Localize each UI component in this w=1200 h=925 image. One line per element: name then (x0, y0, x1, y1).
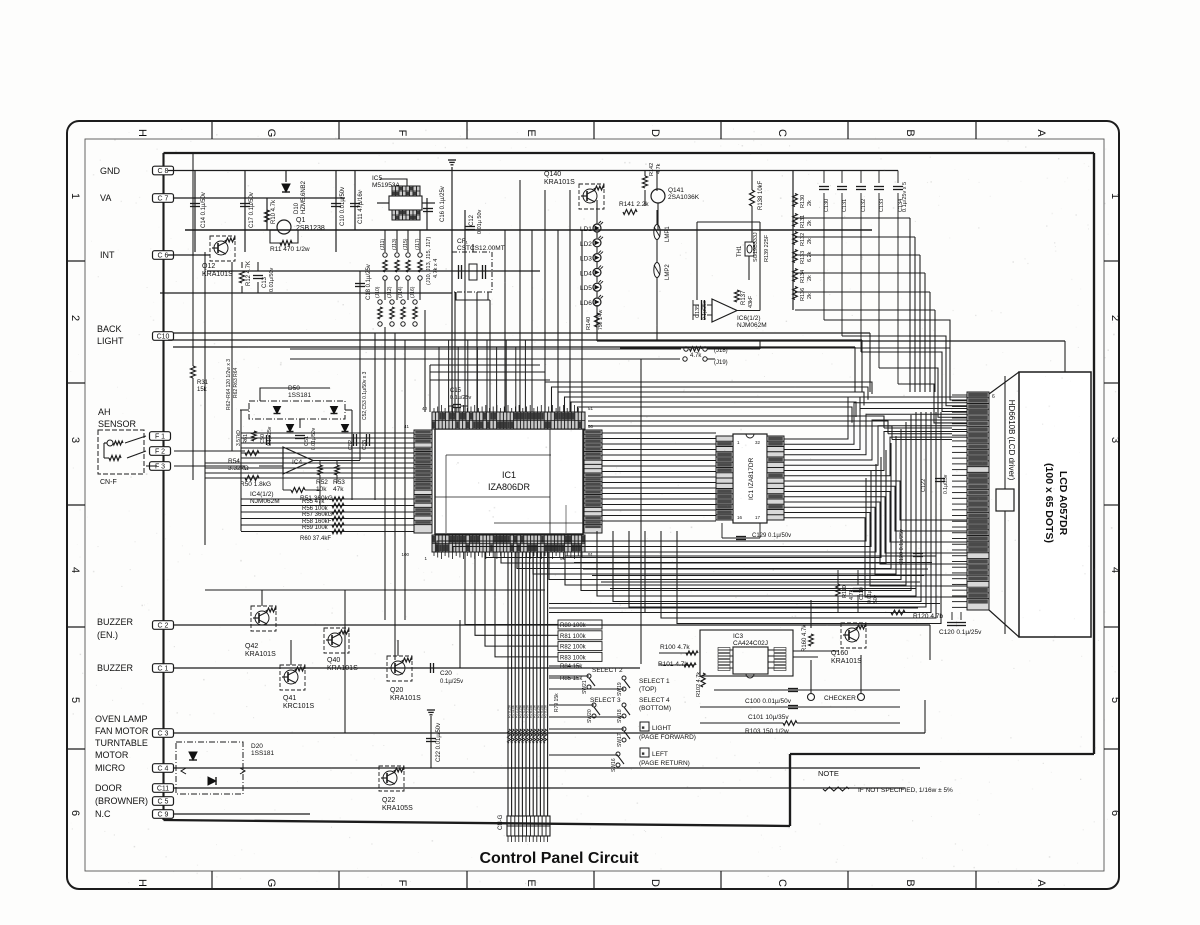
svg-text:(EN.): (EN.) (97, 630, 118, 640)
svg-text:SENSOR: SENSOR (98, 419, 137, 429)
svg-text:SELECT 3: SELECT 3 (590, 697, 621, 704)
svg-text:R136: R136 (800, 288, 806, 301)
svg-text:KRA101S: KRA101S (544, 179, 575, 186)
svg-text:C 1: C 1 (158, 666, 169, 673)
svg-text:INT: INT (100, 250, 115, 260)
svg-text:KRA101S: KRA101S (202, 271, 233, 278)
svg-text:C 8: C 8 (158, 168, 169, 175)
svg-text:15k: 15k (197, 387, 208, 393)
svg-text:OVEN LAMP: OVEN LAMP (95, 714, 148, 724)
svg-text:R60 37.4kF: R60 37.4kF (300, 536, 331, 542)
svg-text:C22 0.01µ/50v: C22 0.01µ/50v (436, 723, 442, 762)
svg-text:SW21: SW21 (582, 680, 588, 694)
svg-text:C 7: C 7 (158, 196, 169, 203)
svg-text:R7015k: R7015k (544, 705, 548, 718)
svg-text:C 6: C 6 (158, 253, 169, 260)
svg-text:CF₁: CF₁ (457, 238, 469, 245)
svg-text:C110: C110 (859, 587, 865, 600)
svg-text:R11 470 1/2w: R11 470 1/2w (270, 246, 310, 253)
svg-text:0.01µ/50v: 0.01µ/50v (269, 267, 275, 292)
svg-text:NOTE: NOTE (818, 769, 839, 778)
svg-text:43kF: 43kF (748, 295, 754, 308)
svg-text:41: 41 (404, 424, 410, 429)
svg-text:R160 4.7k: R160 4.7k (802, 624, 808, 652)
svg-text:H: H (136, 879, 148, 887)
svg-text:D20: D20 (251, 743, 263, 750)
svg-text:C129 0.1µ/50v: C129 0.1µ/50v (752, 533, 791, 539)
svg-text:E: E (525, 879, 537, 886)
svg-text:F 2: F 2 (155, 449, 165, 456)
svg-text:C20: C20 (440, 670, 452, 677)
svg-text:C130: C130 (824, 199, 830, 212)
svg-text:R131: R131 (800, 215, 806, 228)
svg-text:SW17: SW17 (617, 733, 623, 747)
svg-text:R142: R142 (649, 163, 655, 176)
svg-text:6: 6 (1109, 810, 1121, 816)
svg-text:R101 4.7k: R101 4.7k (658, 661, 688, 668)
svg-text:32: 32 (755, 440, 761, 445)
svg-text:F 3: F 3 (155, 464, 165, 471)
svg-text:6: 6 (69, 810, 81, 816)
svg-text:3: 3 (69, 437, 81, 443)
svg-text:1: 1 (69, 193, 81, 199)
svg-text:Q42: Q42 (245, 643, 258, 650)
svg-text:SELECT 1: SELECT 1 (639, 678, 670, 685)
svg-text:(BROWNER): (BROWNER) (95, 796, 148, 806)
svg-text:R102 4.7k: R102 4.7k (696, 672, 702, 697)
svg-text:R139 225F: R139 225F (764, 234, 770, 262)
svg-text:R79 15k: R79 15k (554, 693, 560, 712)
svg-text:2: 2 (69, 315, 81, 321)
svg-text:GND: GND (100, 166, 121, 176)
svg-text:C 5: C 5 (158, 799, 169, 806)
svg-text:Q160: Q160 (831, 650, 848, 657)
svg-text:SW16: SW16 (611, 758, 617, 772)
svg-text:4.7k: 4.7k (656, 163, 662, 174)
svg-text:R130: R130 (800, 195, 806, 208)
svg-text:R61: R61 (243, 434, 249, 444)
svg-text:R138 10kF: R138 10kF (758, 180, 764, 210)
svg-text:C: C (776, 129, 788, 137)
svg-text:■: ■ (642, 751, 645, 757)
svg-text:1SS181: 1SS181 (288, 392, 312, 399)
svg-text:SELECT 4: SELECT 4 (639, 697, 670, 704)
svg-text:R62 R63 R64: R62 R63 R64 (233, 367, 239, 398)
svg-text:IZA806DR: IZA806DR (488, 482, 531, 492)
svg-text:R133: R133 (800, 251, 806, 264)
svg-text:B: B (904, 879, 916, 886)
svg-text:IC1: IC1 (502, 470, 516, 480)
svg-text:CN-F: CN-F (100, 479, 117, 486)
svg-text:10k: 10k (316, 486, 327, 493)
svg-text:F: F (396, 880, 408, 887)
svg-text:MOTOR: MOTOR (95, 750, 129, 760)
svg-text:SG19B333J: SG19B333J (753, 232, 759, 262)
svg-text:A: A (1035, 129, 1047, 137)
svg-text:C 2: C 2 (158, 623, 169, 630)
svg-text:KRA101S: KRA101S (327, 665, 358, 672)
svg-text:C101 10µ/35v: C101 10µ/35v (748, 714, 789, 721)
svg-text:R80 100k: R80 100k (560, 623, 587, 629)
svg-text:2k: 2k (807, 293, 813, 299)
svg-text:100: 100 (401, 552, 409, 557)
svg-text:5: 5 (1109, 697, 1121, 703)
svg-text:C132: C132 (861, 199, 867, 212)
svg-text:C120 0.1µ/25v: C120 0.1µ/25v (939, 629, 982, 636)
svg-text:Q22: Q22 (382, 797, 395, 804)
svg-text:LEFT: LEFT (652, 751, 668, 758)
svg-text:HD6610B (LCD driver): HD6610B (LCD driver) (1007, 400, 1016, 481)
svg-text:CSTCS12.00MT: CSTCS12.00MT (457, 245, 505, 252)
svg-text:4: 4 (1109, 567, 1121, 573)
svg-text:C122: C122 (921, 479, 927, 492)
svg-text:CN-G: CN-G (498, 814, 504, 830)
svg-text:R100 4.7k: R100 4.7k (660, 644, 690, 651)
svg-text:R81 100k: R81 100k (560, 634, 587, 640)
svg-text:C131: C131 (842, 199, 848, 212)
svg-text:(PAGE FORWARD): (PAGE FORWARD) (639, 734, 696, 741)
svg-text:2k: 2k (807, 238, 813, 244)
svg-text:R134: R134 (800, 270, 806, 283)
svg-text:4.7k x 4: 4.7k x 4 (433, 259, 439, 278)
svg-text:750 1/4w: 750 1/4w (598, 309, 604, 330)
svg-text:R120 4.7b: R120 4.7b (913, 613, 943, 620)
svg-text:1SS181: 1SS181 (251, 750, 275, 757)
svg-text:CHECKER: CHECKER (824, 695, 856, 702)
svg-text:C15: C15 (450, 388, 462, 394)
svg-text:0.01µ 50v: 0.01µ 50v (477, 209, 483, 234)
svg-text:A: A (1035, 879, 1047, 887)
svg-text:LMP1: LMP1 (665, 226, 671, 242)
svg-text:KRC101S: KRC101S (283, 703, 314, 710)
svg-text:E: E (525, 129, 537, 136)
svg-text:(J19): (J19) (714, 360, 728, 366)
svg-text:SW19: SW19 (617, 682, 623, 696)
svg-text:IF NOT SPECIFIED, 1/16w ± 5%: IF NOT SPECIFIED, 1/16w ± 5% (858, 787, 953, 794)
svg-text:Control Panel Circuit: Control Panel Circuit (479, 850, 639, 867)
svg-text:47k: 47k (333, 486, 344, 493)
svg-text:C11: C11 (157, 786, 169, 793)
svg-text:C18 0.1µ/25v: C18 0.1µ/25v (366, 264, 372, 300)
svg-text:R55 47k: R55 47k (302, 499, 325, 505)
svg-text:G: G (265, 879, 277, 888)
svg-text:IC1 IZA817DR: IC1 IZA817DR (748, 457, 755, 500)
svg-text:C: C (776, 879, 788, 887)
svg-text:0.1µ/25v: 0.1µ/25v (440, 679, 463, 685)
svg-text:C 9: C 9 (158, 812, 169, 819)
svg-text:LCD A057DR: LCD A057DR (1057, 471, 1069, 536)
svg-text:C133: C133 (879, 199, 885, 212)
svg-text:R83 100k: R83 100k (560, 655, 587, 661)
svg-text:C14 0.1µ/50v: C14 0.1µ/50v (201, 192, 207, 228)
svg-text:C135: C135 (695, 305, 701, 318)
svg-text:C10: C10 (157, 334, 170, 341)
svg-text:0.1µ/25v: 0.1µ/25v (943, 474, 949, 494)
svg-text:Q40: Q40 (327, 657, 340, 664)
svg-text:C52,C53 0.1µ/50v x 3: C52,C53 0.1µ/50v x 3 (362, 371, 368, 420)
svg-text:R50 1.8kG: R50 1.8kG (240, 481, 271, 488)
svg-text:2: 2 (1109, 315, 1121, 321)
svg-text:(100 x 65 DOTS): (100 x 65 DOTS) (1043, 463, 1055, 543)
svg-text:(TOP): (TOP) (639, 686, 657, 693)
svg-text:50v: 50v (873, 594, 879, 603)
svg-text:R62~R64 120 1/2w x 3: R62~R64 120 1/2w x 3 (226, 359, 232, 410)
svg-text:■: ■ (642, 725, 645, 731)
svg-text:IC4(1/2): IC4(1/2) (250, 491, 273, 498)
svg-text:4.7k: 4.7k (690, 353, 702, 359)
svg-text:R59 100k: R59 100k (302, 525, 329, 531)
svg-text:Q41: Q41 (283, 695, 296, 702)
svg-text:C51: C51 (304, 436, 310, 446)
svg-text:Q141: Q141 (668, 187, 684, 194)
svg-text:C16 0.1µ/25v: C16 0.1µ/25v (440, 186, 446, 222)
svg-text:LIGHT: LIGHT (652, 725, 671, 732)
svg-text:(J10, J13, J15, J17): (J10, J13, J15, J17) (426, 237, 432, 285)
svg-text:R52: R52 (316, 479, 328, 486)
svg-text:3: 3 (1109, 437, 1121, 443)
svg-text:0.01µ/50v: 0.01µ/50v (311, 427, 317, 450)
svg-text:(J16): (J16) (410, 286, 416, 298)
svg-text:KRA101S: KRA101S (831, 658, 862, 665)
svg-text:DOOR: DOOR (95, 783, 123, 793)
svg-text:R57 360kG: R57 360kG (302, 512, 333, 518)
svg-text:R85 15k: R85 15k (560, 676, 583, 682)
svg-text:(J10): (J10) (375, 286, 381, 298)
svg-text:TH1: TH1 (737, 245, 743, 257)
svg-text:H: H (136, 129, 148, 137)
svg-text:BUZZER: BUZZER (97, 617, 134, 627)
svg-text:2k: 2k (807, 220, 813, 226)
svg-text:R84 15k: R84 15k (560, 664, 583, 670)
svg-text:(BOTTOM): (BOTTOM) (639, 705, 671, 712)
svg-text:2SA1036K: 2SA1036K (668, 194, 700, 201)
svg-text:C12: C12 (469, 214, 475, 226)
svg-text:IC3: IC3 (733, 633, 744, 640)
svg-text:HZM5.6NB2: HZM5.6NB2 (301, 180, 307, 214)
svg-text:Q140: Q140 (544, 171, 561, 178)
svg-text:R137: R137 (741, 290, 747, 305)
svg-text:B: B (904, 129, 916, 136)
svg-text:16: 16 (737, 515, 743, 520)
svg-text:C 3: C 3 (158, 731, 169, 738)
svg-text:2SB1238: 2SB1238 (296, 225, 325, 232)
svg-text:SW20: SW20 (587, 709, 593, 723)
svg-text:VA: VA (100, 193, 111, 203)
svg-text:R103 150 1/2w: R103 150 1/2w (745, 728, 789, 735)
svg-text:D10: D10 (294, 202, 300, 214)
svg-text:G: G (265, 129, 277, 138)
svg-text:FAN MOTOR: FAN MOTOR (95, 726, 149, 736)
svg-text:17: 17 (755, 515, 761, 520)
svg-text:KRA105S: KRA105S (382, 805, 413, 812)
svg-text:4: 4 (69, 567, 81, 573)
svg-text:R31: R31 (197, 380, 209, 386)
svg-text:C10 0.01µ/50v: C10 0.01µ/50v (340, 187, 346, 226)
svg-text:LIGHT: LIGHT (97, 336, 124, 346)
svg-text:CA424C02J: CA424C02J (733, 640, 768, 647)
svg-text:5: 5 (69, 697, 81, 703)
svg-text:R54: R54 (228, 458, 240, 465)
svg-text:R132: R132 (800, 233, 806, 246)
svg-text:Q1: Q1 (296, 217, 305, 224)
svg-text:6.2k: 6.2k (807, 251, 813, 262)
svg-text:Q20: Q20 (390, 687, 403, 694)
svg-text:NJM062M: NJM062M (737, 322, 767, 329)
svg-text:R53: R53 (333, 479, 345, 486)
svg-text:F 1: F 1 (155, 434, 165, 441)
svg-text:(J12): (J12) (387, 286, 393, 298)
svg-text:0.1µ/25v x 5: 0.1µ/25v x 5 (902, 182, 908, 212)
svg-text:D: D (649, 879, 661, 887)
svg-text:R82 100k: R82 100k (560, 645, 587, 651)
svg-text:(PAGE RETURN): (PAGE RETURN) (639, 760, 690, 767)
svg-text:N.C: N.C (95, 809, 111, 819)
svg-text:2k: 2k (807, 275, 813, 281)
svg-text:R110: R110 (842, 585, 848, 598)
svg-text:BACK: BACK (97, 324, 122, 334)
svg-text:R12 4.7K: R12 4.7K (246, 261, 252, 286)
svg-text:KRA101S: KRA101S (245, 651, 276, 658)
svg-text:1: 1 (1109, 193, 1121, 199)
svg-text:C11 47µ/16v: C11 47µ/16v (358, 190, 364, 224)
svg-text:IC6(1/2): IC6(1/2) (737, 315, 760, 322)
svg-text:R140: R140 (586, 317, 592, 330)
svg-text:LMP2: LMP2 (665, 264, 671, 280)
svg-text:BUZZER: BUZZER (97, 663, 134, 673)
svg-text:(J14): (J14) (398, 286, 404, 298)
svg-text:6: 6 (992, 394, 995, 400)
svg-text:0.1µ/25v: 0.1µ/25v (702, 300, 708, 320)
svg-text:KRA101S: KRA101S (390, 695, 421, 702)
svg-text:MICRO: MICRO (95, 763, 125, 773)
svg-text:TURNTABLE: TURNTABLE (95, 738, 148, 748)
svg-text:AH: AH (98, 407, 111, 417)
svg-text:SW18: SW18 (617, 709, 623, 723)
svg-text:0.1µ/25v: 0.1µ/25v (450, 395, 471, 401)
svg-text:F: F (396, 130, 408, 137)
svg-text:C17 0.1µ/50v: C17 0.1µ/50v (249, 192, 255, 228)
svg-text:C120 0.1µ/25v: C120 0.1µ/25v (899, 529, 905, 565)
svg-text:C50: C50 (260, 434, 266, 444)
svg-text:R10 4.7k: R10 4.7k (271, 199, 277, 224)
svg-text:2k: 2k (807, 200, 813, 206)
svg-text:D: D (649, 129, 661, 137)
svg-text:C 4: C 4 (158, 766, 169, 773)
svg-text:Q12: Q12 (202, 263, 215, 270)
